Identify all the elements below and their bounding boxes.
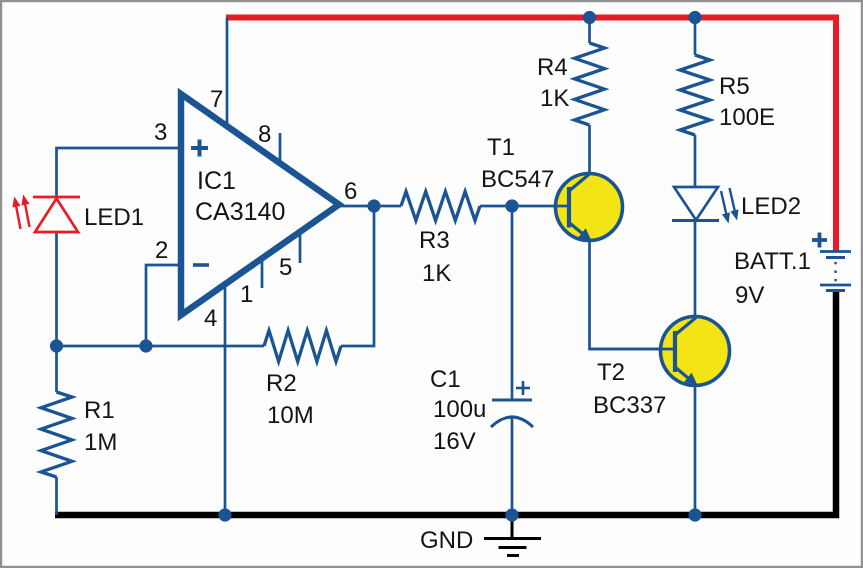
node junction dot: R3/T1/C1 node C [505,199,518,212]
svg-text:100u: 100u [433,396,486,423]
svg-text:1: 1 [240,281,253,308]
svg-text:R1: R1 [84,397,115,424]
node junction dot: T2 emitter ground tap [688,508,701,521]
svg-text:GND: GND [420,527,473,554]
wire: C1 - plate down to ground bus [511,418,514,515]
wire: R5 bottom to LED2 anode [694,135,697,188]
op-amp minus input marker [193,263,209,267]
wire: R5 top to rail [694,18,697,56]
ground GND symbol [484,518,541,556]
node junction dot: node A left [50,339,63,352]
svg-text:7: 7 [210,86,223,113]
op-amp pin 1 stub [261,258,264,288]
wire: pin7 to +9V rail [226,18,229,129]
wire: pin2 inverting input to node A [146,265,179,346]
wire: feedback node A to R2 left [57,345,265,348]
svg-text:IC1: IC1 [197,167,236,195]
resistor R2 10M [264,331,341,362]
op-amp pin 5 stub [299,232,302,263]
wire: R4 bottom to T1 collector [588,125,591,176]
wire: LED1 cathode down to feedback node A [55,231,58,346]
svg-text:100E: 100E [719,104,775,131]
resistor R4 1K [575,43,605,125]
LED1 incident light arrow 1 [12,197,20,230]
svg-text:9V: 9V [735,282,764,309]
wire: pin4 to ground bus [224,284,227,515]
wire: R2 right up to output node B [341,206,374,346]
wire: T1 emitter down to T2 base [590,239,672,349]
svg-text:R3: R3 [419,227,450,254]
capacitor C1 100u plus plate [492,399,532,402]
wire: R3 to T1 base [480,205,512,208]
transistor T1 BC547 [512,174,623,241]
node junction dot: pin2 tap on node A [139,339,152,352]
svg-text:T2: T2 [597,359,625,386]
svg-text:CA3140: CA3140 [195,198,285,226]
svg-text:1K: 1K [422,260,451,287]
node junction dot: output node B [367,199,380,212]
svg-text:1K: 1K [540,85,569,112]
svg-text:8: 8 [258,121,271,148]
LED2 indicator LED [672,187,719,221]
op-amp plus input marker [191,140,208,157]
transistor T2 BC337 [590,317,730,386]
svg-text:BC547: BC547 [481,166,554,193]
svg-text:3: 3 [154,119,167,146]
op-amp IC1 CA3140 triangle [181,94,339,315]
wire: R4 top to rail [588,18,591,44]
node junction dot: R5 tap on rail [688,11,701,24]
wire: R1 bottom to ground bus [55,477,58,515]
svg-text:T1: T1 [487,134,515,161]
LED2 emitted light arrow 2 [730,188,739,221]
capacitor C1 polarity plus [516,381,530,395]
wire: +9V red rail from pin7 across top and down to battery + [226,18,836,252]
LED2 emitted light arrow 1 [721,191,730,224]
svg-text:BC337: BC337 [593,392,666,419]
svg-text:R2: R2 [266,370,297,397]
node junction dot: pin4 ground tap [218,508,231,521]
wire: node C down to C1 + plate [511,206,514,399]
svg-text:5: 5 [279,254,292,281]
wire: ground bus black along bottom and up right side to battery - [55,291,836,515]
svg-text:1M: 1M [84,429,117,456]
svg-text:2: 2 [155,237,168,264]
svg-text:6: 6 [344,178,357,205]
resistor R1 1M [41,392,72,477]
svg-text:BATT.1: BATT.1 [734,248,811,275]
svg-text:4: 4 [204,305,217,332]
wire: T2 emitter to ground bus [694,384,697,515]
wire: pin3 input from LED1 anode [57,148,180,199]
LED1 photodiode-connected red LED [33,197,80,232]
battery polarity plus [812,233,827,248]
capacitor C1 minus curved plate [491,417,533,427]
LED1 incident light arrow 2 [21,195,29,228]
battery BATT.1 9V [820,252,851,291]
wire: pin6 output to R3 [339,205,401,208]
svg-text:16V: 16V [433,428,476,455]
svg-text:10M: 10M [267,402,314,429]
node junction dot: R4 tap on rail [583,11,596,24]
node junction dot: C1 ground tap [505,508,518,521]
wire: LED2 cathode to T2 collector [694,220,697,318]
svg-text:LED1: LED1 [84,204,144,231]
op-amp pin 8 stub [279,133,282,163]
resistor R3 1K [401,192,480,221]
wire: node A to R1 top [55,346,58,392]
resistor R5 100E [680,55,710,135]
svg-text:R4: R4 [537,54,568,81]
svg-text:LED2: LED2 [741,193,801,220]
svg-text:R5: R5 [719,73,750,100]
svg-text:C1: C1 [430,366,461,393]
